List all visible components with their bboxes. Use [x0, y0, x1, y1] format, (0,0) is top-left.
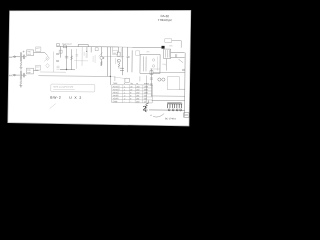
- svg-text:8: 8: [130, 92, 131, 94]
- dot node: [103, 57, 104, 58]
- vertical x121: [120, 48, 122, 58]
- capacitor C5: [95, 48, 98, 51]
- wire top right: [165, 39, 172, 43]
- wire input ch1: [13, 56, 20, 58]
- tube V1 path: [65, 47, 67, 70]
- capacitor C7: [176, 54, 177, 57]
- schematic page (scanned sheet): [8, 10, 191, 126]
- marks cluster x116: [116, 58, 118, 64]
- amplifier box A1: [27, 50, 34, 56]
- wire pot lead diagonal: [44, 58, 49, 62]
- svg-text:BC-1748-A: BC-1748-A: [165, 117, 176, 120]
- svg-text:BW-2: BW-2: [50, 96, 61, 100]
- choke box: [150, 70, 153, 74]
- svg-text:1200: 1200: [144, 92, 148, 94]
- svg-text:250: 250: [136, 86, 139, 88]
- svg-text:NOTE: ALL CAPS IN MFD: NOTE: ALL CAPS IN MFD: [53, 85, 74, 88]
- component box mid drop: [59, 50, 62, 53]
- svg-text:.1: .1: [124, 89, 126, 91]
- wire table to coil: [145, 75, 147, 101]
- svg-text:6SJ7: 6SJ7: [36, 48, 40, 50]
- wire rail upper segment: [78, 44, 88, 46]
- capacitor C10 small: [76, 55, 79, 56]
- wire bus x107.5: [106, 47, 108, 76]
- wire drop x76.5: [75, 49, 77, 69]
- wire right h1: [171, 52, 185, 54]
- tube V5: [162, 78, 165, 81]
- label box mid a: [113, 51, 118, 55]
- svg-text:1500: 1500: [144, 86, 148, 88]
- wire into table a: [114, 76, 116, 81]
- svg-text:8: 8: [130, 98, 131, 100]
- resistor R4 cathode: [100, 62, 102, 66]
- svg-text:V1 6SJ7: V1 6SJ7: [113, 86, 120, 88]
- resistor R5: [118, 62, 120, 69]
- svg-text:.5: .5: [124, 98, 126, 100]
- filter chain vertical: [150, 68, 152, 96]
- amplifier box A2: [26, 68, 33, 74]
- tick x112.5: [112, 47, 114, 51]
- component box on rail: [63, 45, 66, 48]
- svg-text:285: 285: [136, 95, 139, 97]
- grid marks V1: [65, 56, 68, 58]
- table cell text: [113, 86, 148, 103]
- cord coil: [145, 103, 148, 112]
- pencil mark diagonal: [50, 104, 56, 109]
- table header text: [113, 83, 150, 85]
- potentiometer P1: [46, 56, 50, 60]
- leader arc: [153, 113, 164, 117]
- wire drop x118.5: [118, 47, 120, 52]
- wire drop x127.5: [127, 47, 129, 56]
- wire into table b: [139, 76, 141, 81]
- wire ch2 output: [33, 70, 38, 72]
- wire bus x110.5: [109, 47, 111, 85]
- tick and dot x86.5: [86, 47, 88, 51]
- wire right h2: [171, 57, 185, 59]
- svg-text:.5: .5: [124, 95, 126, 97]
- rectifier box: [167, 77, 179, 90]
- wire ch1 output: [34, 51, 45, 53]
- resistor R6 small: [56, 66, 59, 69]
- transformer T1: [19, 52, 21, 61]
- svg-text:1500: 1500: [144, 89, 148, 91]
- page edge shading: [8, 10, 191, 126]
- capacitor C4: [56, 60, 59, 61]
- junction dot: [66, 69, 67, 70]
- tube V3: [118, 59, 121, 62]
- capacitor C2: [23, 73, 25, 77]
- svg-text:125: 125: [144, 101, 147, 103]
- tube V2: [100, 56, 103, 59]
- power transformer T4: [164, 49, 171, 59]
- label box mid b: [136, 51, 140, 56]
- component box lower: [125, 78, 130, 82]
- ground ch1: [20, 66, 23, 69]
- wire input ch2: [12, 74, 19, 76]
- svg-text:PL: PL: [136, 83, 138, 85]
- svg-text:350: 350: [136, 101, 139, 103]
- wire mid horizontal y56.5: [100, 56, 124, 58]
- svg-text:V2 6SJ7: V2 6SJ7: [113, 89, 120, 91]
- capacitor C3: [56, 53, 59, 54]
- svg-text:THEATER: THEATER: [158, 18, 173, 22]
- svg-text:6SJ7 6SJ7: 6SJ7 6SJ7: [62, 44, 73, 46]
- socket circle b: [172, 109, 174, 111]
- svg-text:25: 25: [130, 89, 132, 91]
- wire drop x132: [131, 50, 133, 72]
- svg-text:6F6: 6F6: [147, 51, 150, 53]
- resistor R2: [20, 79, 22, 82]
- wire stub y70: [60, 69, 75, 71]
- label box bottom right: [184, 113, 190, 118]
- svg-text:5Y3: 5Y3: [169, 45, 172, 47]
- junction dot bus: [110, 76, 111, 77]
- svg-text:MIC: MIC: [9, 57, 13, 59]
- svg-text:MIC: MIC: [9, 75, 13, 77]
- svg-text:250: 250: [136, 92, 139, 94]
- wire link mid: [60, 69, 75, 71]
- notes text line2: [53, 88, 74, 90]
- svg-text:.1: .1: [124, 92, 126, 94]
- ground ch2: [19, 85, 22, 88]
- svg-text:25: 25: [130, 86, 132, 88]
- svg-text:250: 250: [136, 89, 139, 91]
- svg-text:285: 285: [136, 98, 139, 100]
- resistor R1: [20, 60, 22, 63]
- svg-text:5Y3: 5Y3: [163, 64, 166, 66]
- socket circle a: [168, 109, 170, 111]
- value label box ch2: [35, 65, 40, 70]
- terminal strip (dark hatched): [167, 104, 182, 108]
- wire diagonal grid lead: [99, 52, 103, 56]
- svg-text:V3 6C5: V3 6C5: [113, 92, 119, 94]
- socket circle d: [180, 109, 182, 111]
- value label box ch1: [36, 47, 41, 52]
- wire link y88.5: [179, 88, 184, 90]
- svg-text:.1: .1: [124, 86, 126, 88]
- winding bars T3: [142, 56, 144, 71]
- wire drop x71.5: [70, 49, 72, 69]
- misc mark a: [84, 52, 86, 58]
- wire top link: [132, 46, 162, 48]
- wire drop x87: [86, 47, 88, 58]
- coupling network box: [117, 52, 120, 56]
- potentiometer P2: [46, 64, 50, 68]
- table column lines: [123, 85, 143, 103]
- capacitor C8: [150, 78, 153, 79]
- component top right small: [182, 69, 185, 71]
- svg-text:V4 6F6: V4 6F6: [113, 95, 119, 97]
- wire speaker line: [149, 109, 184, 111]
- node plus mark ch1: [23, 51, 25, 53]
- wire mixer lower horizontal: [40, 71, 66, 73]
- output transformer box T3: [140, 54, 160, 73]
- capacitor C6: [127, 56, 130, 57]
- svg-text:6C5: 6C5: [113, 53, 116, 55]
- connector J2: [14, 74, 16, 76]
- wire signal ch2 long: [38, 75, 110, 78]
- core block (dark): [161, 46, 164, 49]
- wire mixer: [45, 53, 48, 56]
- component cluster mid: [120, 68, 124, 71]
- svg-text:U X 2: U X 2: [69, 96, 82, 100]
- svg-text:8: 8: [130, 95, 131, 97]
- parts table frame: [112, 85, 153, 103]
- wire drop x122.5: [121, 47, 123, 75]
- terminal box on rail: [57, 43, 60, 46]
- svg-text:5Y3G: 5Y3G: [113, 101, 118, 103]
- connector J1: [14, 56, 16, 58]
- rectifier lead: [179, 59, 184, 63]
- wire link y95: [151, 95, 184, 97]
- wire right bus: [184, 53, 187, 117]
- transformer T2: [19, 71, 21, 80]
- wire mixer bus vertical: [52, 52, 54, 72]
- socket circle c: [176, 109, 178, 111]
- resistor R3: [71, 56, 73, 60]
- notes box: [51, 84, 95, 92]
- capacitor C9: [150, 84, 153, 85]
- svg-text:6SJ7: 6SJ7: [36, 66, 40, 68]
- wire link y61: [74, 60, 88, 62]
- wire drop x60: [60, 46, 62, 57]
- wire B+ rail: [56, 45, 118, 48]
- svg-text:OHMS: OHMS: [144, 83, 150, 85]
- capacitor C1: [23, 55, 25, 59]
- wire drop x82: [81, 47, 83, 66]
- misc mark b: [93, 55, 95, 63]
- wire drop x91: [90, 47, 92, 53]
- svg-text:V5 6F6: V5 6F6: [113, 98, 119, 100]
- wire link y72: [153, 71, 185, 73]
- tube V4: [158, 78, 161, 81]
- table row lines: [112, 88, 153, 100]
